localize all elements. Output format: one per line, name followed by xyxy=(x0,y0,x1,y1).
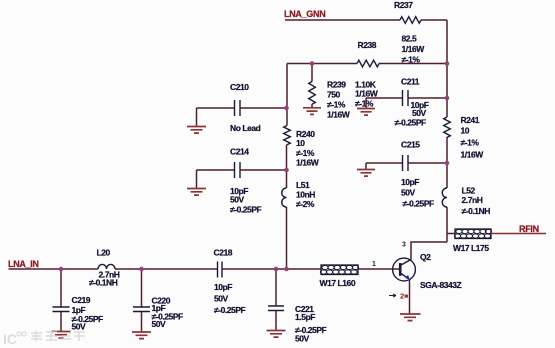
capacitor C211 xyxy=(366,77,447,128)
ground (C210) xyxy=(187,108,206,133)
capacitor C214 xyxy=(197,147,287,215)
svg-text:≠-1%: ≠-1% xyxy=(296,148,315,158)
wire collector node to W17 L175 xyxy=(447,233,455,235)
inductor L51 xyxy=(282,180,316,209)
wire Q2 collector up and to output node xyxy=(411,242,447,260)
svg-text:50V: 50V xyxy=(230,195,245,205)
svg-text:82.5: 82.5 xyxy=(402,34,417,44)
wire R237 right to vertical bus xyxy=(421,19,447,21)
svg-text:R241: R241 xyxy=(461,115,480,125)
wire left vertical x=286.5 from bias row down to input row xyxy=(286,64,289,270)
svg-text:LNA_GNN: LNA_GNN xyxy=(284,9,325,19)
svg-text:3: 3 xyxy=(402,242,406,249)
svg-text:1.5pF: 1.5pF xyxy=(295,312,315,322)
svg-text:IC: IC xyxy=(3,331,17,347)
wire right vertical bus x=447 xyxy=(446,20,448,242)
pin number 2 and emitter mark (Q2) xyxy=(389,292,408,301)
transistor Q2 xyxy=(393,252,462,290)
svg-text:≠-0.25PF: ≠-0.25PF xyxy=(214,305,246,315)
ground (R239) xyxy=(303,108,321,115)
junction node H (C215 right) xyxy=(445,161,450,166)
svg-text:≠-0.1NH: ≠-0.1NH xyxy=(462,206,491,216)
svg-text:No Lead: No Lead xyxy=(230,123,261,133)
svg-text:L20: L20 xyxy=(97,248,111,258)
svg-text:≠-0.25PF: ≠-0.25PF xyxy=(403,199,435,209)
junction node B (C220) xyxy=(139,267,144,272)
microstrip W17 L160 xyxy=(320,265,359,288)
svg-text:L51: L51 xyxy=(296,180,310,190)
wire LNA_GNN to R237 xyxy=(285,19,400,21)
watermark xyxy=(3,331,85,347)
wire Q2 emitter to ground xyxy=(409,280,411,314)
capacitor C221 xyxy=(268,269,327,344)
svg-text:W17 L160: W17 L160 xyxy=(320,278,356,288)
svg-text:50V: 50V xyxy=(412,108,427,118)
inductor L52 xyxy=(442,186,490,217)
svg-text:C218: C218 xyxy=(214,248,233,258)
svg-text:1/16W: 1/16W xyxy=(296,158,320,168)
resistor R241 xyxy=(444,115,485,160)
svg-text:R237: R237 xyxy=(394,0,413,10)
svg-text:10: 10 xyxy=(296,138,305,148)
svg-text:≠-0.25PF: ≠-0.25PF xyxy=(395,118,427,128)
svg-text:50V: 50V xyxy=(152,319,167,329)
svg-text:50V: 50V xyxy=(214,294,229,304)
svg-text:LNA_IN: LNA_IN xyxy=(8,259,39,269)
svg-text:1/16W: 1/16W xyxy=(327,110,351,120)
svg-text:1/16W: 1/16W xyxy=(355,89,379,99)
ground (Q2 emitter) xyxy=(400,314,421,321)
junction node A (LNA_IN / C219) xyxy=(59,267,64,272)
svg-text:≠-1%: ≠-1% xyxy=(461,138,480,148)
wire W17 L175 to RFIN xyxy=(491,233,546,235)
svg-text:C215: C215 xyxy=(401,140,420,150)
resistor R237 xyxy=(394,0,425,65)
junction node J (C214 right) xyxy=(284,168,289,173)
capacitor C218 xyxy=(214,248,246,316)
svg-text:50V: 50V xyxy=(72,322,87,332)
svg-text:50V: 50V xyxy=(295,334,310,344)
svg-text:Q2: Q2 xyxy=(420,252,431,262)
resistor R239 xyxy=(309,64,351,120)
svg-text:50V: 50V xyxy=(401,188,416,198)
capacitor C210 xyxy=(197,82,287,133)
svg-text:≠-1%: ≠-1% xyxy=(355,99,374,109)
svg-text:≠-0.25PF: ≠-0.25PF xyxy=(230,205,262,215)
capacitor C220 xyxy=(133,269,183,332)
svg-text:C214: C214 xyxy=(230,147,249,157)
junction node C (C221) xyxy=(274,267,279,272)
svg-text:10nH: 10nH xyxy=(296,190,315,200)
svg-text:10pF: 10pF xyxy=(214,282,232,292)
wire bias row y=63.5 xyxy=(287,63,447,65)
net label LNA_IN and input wire xyxy=(8,259,39,269)
ground (C211) xyxy=(357,98,375,115)
svg-text:R238: R238 xyxy=(358,40,377,50)
svg-text:1: 1 xyxy=(372,261,376,268)
ground (C221) xyxy=(267,331,286,338)
ground (C219) xyxy=(52,332,71,339)
ground (C214) xyxy=(187,170,206,195)
resistor R238 xyxy=(355,40,379,109)
ground (C215) xyxy=(357,163,375,176)
svg-text:L52: L52 xyxy=(462,186,476,196)
junction node D (L51 bottom) xyxy=(284,267,289,272)
microstrip W17 L175 xyxy=(453,229,492,253)
junction node E (R239 top) xyxy=(310,61,315,66)
svg-text:≠-0.1NH: ≠-0.1NH xyxy=(89,278,118,288)
capacitor C215 xyxy=(366,140,447,209)
svg-text:C211: C211 xyxy=(401,77,420,87)
svg-text:1/16W: 1/16W xyxy=(402,44,426,54)
ground (C220) xyxy=(132,332,151,339)
svg-text:C219: C219 xyxy=(72,295,91,305)
wire main input row y=269 xyxy=(9,268,401,270)
svg-text:1/16W: 1/16W xyxy=(461,150,485,160)
svg-text:≠-1%: ≠-1% xyxy=(327,100,346,110)
junction node F (R238 right) xyxy=(445,61,450,66)
junction node I (C210 right) xyxy=(284,106,289,111)
svg-text:10: 10 xyxy=(461,126,470,136)
net label LNA_GNN xyxy=(284,9,325,19)
svg-text:2: 2 xyxy=(400,292,404,301)
svg-text:10pF: 10pF xyxy=(401,177,419,187)
svg-text:SGA-8343Z: SGA-8343Z xyxy=(420,280,462,290)
svg-text:C210: C210 xyxy=(230,82,249,92)
capacitor C219 xyxy=(53,269,104,332)
inductor L20 xyxy=(89,248,120,288)
svg-text:2.7nH: 2.7nH xyxy=(462,195,483,205)
junction node G (C211 right) xyxy=(445,96,450,101)
svg-text:W17 L175: W17 L175 xyxy=(453,243,489,253)
svg-text:750: 750 xyxy=(327,90,341,100)
resistor R240 xyxy=(284,126,320,168)
svg-text:R239: R239 xyxy=(327,80,346,90)
svg-text:RFIN: RFIN xyxy=(519,224,539,234)
svg-text:≠-2%: ≠-2% xyxy=(296,199,315,209)
